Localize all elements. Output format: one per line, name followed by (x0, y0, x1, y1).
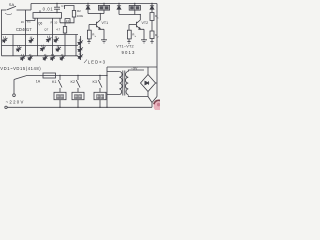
node junction (134, 3, 135, 4)
wire: pin16 column drop (25, 10, 27, 56)
svg-text:SA: SA (9, 2, 15, 7)
svg-text:K3: K3 (93, 80, 98, 84)
wire: grid row 2 (2, 45, 79, 47)
wire: grid column 7 (75, 35, 77, 56)
node junction (59, 75, 60, 76)
LED VD7 (54, 44, 62, 52)
wire: left input lead (1, 9, 6, 11)
svg-text:K2: K2 (71, 80, 76, 84)
resistor R6 (150, 31, 154, 42)
LED VD1 (0, 35, 8, 43)
svg-text:~9V: ~9V (131, 67, 138, 71)
diode VD16 flyback (86, 4, 90, 14)
load box 1 (54, 92, 66, 99)
transformer core (123, 71, 125, 96)
LED power indicator (150, 4, 154, 13)
node junction (151, 3, 152, 4)
LED VD9 (18, 53, 26, 61)
svg-text:13: 13 (66, 19, 70, 23)
svg-text:R2: R2 (77, 9, 81, 13)
switch: AC power (14, 76, 26, 80)
svg-text:10: 10 (54, 21, 57, 25)
wire: grid row 3 (2, 55, 79, 57)
wire: bridge right to edge (156, 82, 158, 84)
svg-text:1A: 1A (36, 80, 41, 84)
node junction (99, 75, 100, 76)
resistor Rb2 base (127, 25, 131, 42)
wire: neutral bus (7, 106, 152, 108)
ground Rb1 (87, 42, 90, 44)
resistor Rb1 base (87, 25, 91, 42)
resistor R2 loop (60, 6, 76, 23)
wire: collector node ch2 (119, 14, 140, 16)
LED string diode 3 (76, 52, 84, 60)
wire: bridge bottom (147, 92, 149, 97)
svg-text:Vcc: Vcc (27, 20, 32, 23)
svg-text:b: b (95, 36, 97, 38)
LED string diode 2 (76, 45, 84, 53)
wire: grid row 1 (2, 34, 79, 36)
contact K3 (98, 76, 102, 93)
svg-text:LED×3: LED×3 (88, 60, 106, 65)
load box 2 (72, 92, 84, 99)
switch SA (5, 6, 31, 14)
svg-text:9013: 9013 (122, 50, 136, 55)
watermark (154, 101, 163, 111)
transistor VT2 (129, 15, 144, 40)
wire: riser to top rail (30, 4, 32, 11)
capacitor C1 (54, 3, 60, 13)
load box 3 (94, 92, 106, 99)
LED VD6 (38, 44, 46, 52)
wire: LED string (80, 36, 82, 60)
LED VD13 (58, 53, 66, 61)
svg-text:VD1~VD15(4148): VD1~VD15(4148) (0, 66, 41, 71)
svg-text:VT1: VT1 (102, 21, 109, 25)
svg-text:4.7: 4.7 (56, 28, 60, 32)
relay coil KA1 (98, 4, 109, 14)
wire up from terminal (13, 80, 15, 94)
wire: secondary top lead (128, 70, 144, 72)
LED string diode 1 (76, 38, 84, 46)
node junction (77, 75, 78, 76)
wire: secondary bottom lead (128, 95, 148, 96)
node junction (77, 107, 78, 108)
fuse FU 1A (43, 73, 56, 78)
pin stub top (39, 10, 41, 12)
wire: bridge DC+ to top (147, 67, 149, 75)
node junction (140, 14, 141, 15)
svg-text:1: 1 (157, 18, 159, 20)
contact K2 (76, 76, 80, 93)
ground ch1 emitter (101, 40, 107, 43)
wire: live bus (26, 75, 43, 77)
ground Rb2 (127, 42, 130, 44)
wire: Y junction to neutral (148, 97, 157, 108)
wire: live bus right (56, 75, 108, 77)
LED VD11 (41, 53, 49, 61)
relay coil KA2 (129, 4, 140, 15)
svg-text:Q6: Q6 (38, 22, 42, 26)
contact K1 (58, 76, 62, 93)
terminal: AC neutral (5, 106, 7, 108)
transformer T secondary (126, 72, 129, 95)
wire: PSU left edge (106, 67, 108, 107)
arrow to LED label (84, 60, 87, 64)
wire: grid column 5 (52, 18, 54, 56)
svg-text:K1: K1 (52, 80, 57, 84)
terminal: AC live (13, 94, 16, 97)
LED VD12 (48, 53, 56, 61)
node rail junction (87, 3, 88, 4)
svg-text:R: R (51, 20, 54, 24)
svg-text:2: 2 (157, 36, 159, 38)
wire: grid column 2 (12, 35, 14, 56)
wire: collector node ch1 (88, 13, 104, 15)
wire: grid column 6 (64, 35, 66, 56)
node junction (100, 13, 101, 14)
LED VD5 (14, 44, 22, 52)
ground R6 (150, 42, 153, 44)
svg-text:CD4017: CD4017 (16, 27, 32, 32)
wire: PSU top edge (107, 66, 157, 68)
IC U1 CD4017 (33, 13, 62, 19)
svg-text:VT2: VT2 (142, 21, 149, 25)
bridge rectifier (141, 75, 156, 92)
ground ch2 emitter (141, 40, 147, 43)
svg-text:VT1~VT2: VT1~VT2 (116, 45, 134, 49)
pin box 13 (65, 19, 70, 23)
transistor VT1 (89, 14, 104, 40)
svg-text:16: 16 (21, 20, 25, 24)
svg-text:100k: 100k (77, 14, 84, 18)
wire: load drops (60, 100, 100, 108)
diode VD17 flyback (117, 4, 121, 15)
node junction (106, 107, 107, 108)
LED VD2 (27, 35, 35, 43)
node junction (99, 107, 100, 108)
svg-text:Q7: Q7 (44, 28, 48, 32)
LED VD4 (52, 35, 60, 43)
svg-text:b: b (135, 36, 137, 38)
wire: right edge vertical (156, 4, 158, 97)
node junction (118, 3, 119, 4)
wire: grid left edge (1, 10, 3, 56)
LED VD3 (44, 35, 52, 43)
node junction (103, 3, 104, 4)
LED VD10 (26, 53, 34, 61)
wire: grid column 4 (37, 18, 39, 56)
resistor R1 column (63, 23, 66, 35)
resistor R5 (150, 13, 154, 31)
svg-text:~220V: ~220V (6, 100, 25, 105)
transformer T primary (107, 72, 122, 95)
svg-text:0.01: 0.01 (43, 7, 54, 12)
wire: top supply rail (31, 3, 157, 5)
